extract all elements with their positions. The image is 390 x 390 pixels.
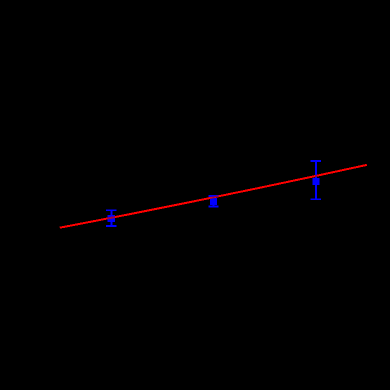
error bar 2 top cap <box>208 195 218 197</box>
error bar 1 stem <box>111 209 113 227</box>
error bar 1 bottom cap <box>106 225 116 227</box>
data point 1 error bar (blue) <box>106 209 116 227</box>
error bar 3 bottom cap <box>311 198 321 200</box>
error bar 2 bottom cap <box>208 206 218 208</box>
data point 2 marker <box>210 198 217 205</box>
error bar 2 stem <box>213 195 215 208</box>
fitted model line (red) <box>60 165 367 228</box>
data point 3 marker <box>312 178 319 185</box>
data point 2 error bar (blue) <box>208 195 218 208</box>
data point 3 error bar (blue) <box>311 160 321 200</box>
error bar 3 stem <box>315 160 317 200</box>
error bar 1 top cap <box>106 209 116 211</box>
fitted line blended where it crosses blue marks <box>60 165 367 228</box>
error bar 3 top cap <box>311 160 321 162</box>
data point 1 marker <box>108 215 115 222</box>
